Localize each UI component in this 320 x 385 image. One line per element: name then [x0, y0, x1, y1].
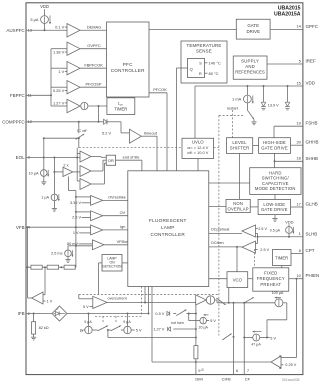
svg-text:IC off: IC off [77, 128, 87, 133]
wire threshold link [43, 137, 79, 157]
wire VDD rail [195, 85, 303, 87]
wire VCO to preheat [248, 278, 253, 280]
wire 0.25V comparator output [152, 361, 271, 363]
svg-text:restart: restart [227, 105, 239, 110]
svg-text:DIM: DIM [195, 376, 202, 381]
resistor DIM [194, 346, 198, 359]
flip-flop temp sense [188, 59, 205, 78]
wire OVPFC output [80, 43, 107, 49]
block FLUORESCENT LAMP CONTROLLER [128, 171, 209, 287]
wire Ign output [103, 225, 128, 230]
wire OV output [103, 211, 128, 216]
current source 0.5 uA [270, 224, 295, 233]
svg-text:AND: AND [245, 64, 255, 69]
pin 18 SHHB [275, 156, 319, 162]
svg-text:(1): (1) [201, 368, 204, 372]
svg-text:IFB: IFB [18, 311, 25, 316]
svg-text:PFCOSP: PFCOSP [86, 81, 102, 86]
control rail dashed vertical [218, 116, 220, 336]
current source 10 uA [29, 158, 50, 177]
svg-text:20: 20 [296, 140, 301, 145]
wire dim comp row [215, 300, 217, 303]
resistor divider R-A [28, 265, 43, 269]
pin 3 EOL [16, 155, 31, 160]
wire COMPPFC line [26, 121, 99, 123]
svg-text:IREF: IREF [306, 59, 317, 64]
wire lamp-on left [99, 263, 103, 295]
gate OR [106, 155, 115, 165]
switch 9 uA b [111, 326, 121, 331]
comparator 3.30 V [70, 196, 103, 206]
svg-text:R: R [199, 71, 202, 76]
svg-text:UVLO: UVLO [192, 140, 204, 145]
svg-text:GPFC: GPFC [306, 24, 319, 29]
zener diode 13.9 V right [285, 86, 290, 110]
wire lamp controller to non overlap [209, 206, 226, 208]
svg-text:VDD: VDD [40, 4, 49, 9]
control link to restart switch dashed [219, 115, 244, 117]
VDD label (5 uA source) [40, 4, 49, 9]
zener diode 13.9 V left [261, 86, 266, 110]
ground 2.5 ms [65, 257, 70, 263]
ground low-side drive [272, 215, 277, 222]
comparator EOL lower [80, 179, 91, 190]
current source 5 uA [30, 16, 51, 25]
wire EOL comparator control [77, 148, 80, 181]
wire DIM to border [195, 359, 197, 375]
label 13.9 V [268, 103, 279, 107]
svg-text:001aan208: 001aan208 [282, 378, 300, 382]
label 5 V right of 9uA [131, 329, 142, 333]
wire IFB line left [26, 313, 52, 315]
wire OCpreheat [209, 227, 242, 233]
wire PHIEN to 0.25V comparator [281, 279, 297, 358]
svg-text:GATE DRIVE: GATE DRIVE [261, 146, 288, 151]
wire OCIsen to VCO [236, 247, 238, 272]
wire DEMAG output [80, 24, 107, 30]
svg-text:PFC: PFC [123, 62, 133, 67]
pin 9 DIM [195, 368, 204, 382]
ground 9 uA left [81, 329, 87, 332]
wire IC off rail down [78, 137, 80, 148]
comparator 1 V buffer [32, 292, 53, 304]
current source 1 mA [232, 86, 254, 104]
switch control dashed [95, 316, 142, 323]
comparator DEMAG 0.1 V [55, 24, 80, 38]
svg-text:TIMER: TIMER [114, 106, 127, 111]
svg-text:0.25 V: 0.25 V [285, 363, 296, 367]
svg-text:VDD: VDD [285, 219, 294, 224]
svg-text:1 V: 1 V [47, 300, 53, 304]
svg-text:140 °C: 140 °C [209, 60, 221, 65]
block TIMER [273, 250, 292, 266]
svg-text:1.27 V: 1.27 V [153, 328, 164, 332]
svg-text:0.25 V: 0.25 V [53, 88, 65, 93]
svg-text:REFERENCES: REFERENCES [235, 69, 265, 74]
wire PFCOSP output [80, 81, 107, 87]
svg-text:OVrestrike: OVrestrike [108, 196, 126, 200]
svg-text:1 V: 1 V [73, 231, 79, 235]
wire AUXPFC line [26, 29, 67, 31]
wire VDD to current source [44, 9, 46, 15]
svg-text:COMPPFC: COMPPFC [2, 119, 25, 124]
pin 7 CF [245, 368, 251, 381]
block HARD SWITCHING CAPACITIVE MODE DETECTION [250, 168, 301, 195]
block LOW-SIDE GATE DRIVE [258, 199, 290, 214]
wire VFBlow output [104, 240, 130, 245]
wire SLHB sense rail [256, 234, 259, 244]
svg-text:2 x: 2 x [63, 162, 68, 167]
ground 1 uA [52, 201, 57, 212]
block TEMPERATURE SENSE [181, 41, 227, 83]
comparator 80 mV [67, 240, 104, 250]
svg-text:S: S [199, 60, 202, 65]
control into preheat dashed [254, 249, 256, 268]
wire CF rail [243, 303, 245, 375]
svg-text:SHIFTER: SHIFTER [230, 146, 250, 151]
wire buffer output [28, 297, 32, 299]
block GATE DRIVE [236, 19, 270, 39]
current source 9 uA right [121, 314, 131, 334]
svg-text:PFCOK: PFCOK [153, 87, 167, 92]
control rail dashed horizontal [79, 147, 219, 149]
svg-text:timeout: timeout [144, 130, 158, 135]
comparator timeout 5.2 V [102, 129, 141, 143]
diode end-of-life timeout [99, 119, 122, 124]
svg-text:9 µA: 9 µA [84, 320, 92, 324]
resistor 82 kOhm [32, 314, 49, 335]
svg-text:3.30 V: 3.30 V [70, 201, 81, 205]
svg-text:18: 18 [296, 156, 301, 161]
comparator 1.27 V with current source [51, 99, 88, 112]
wire end of life [116, 154, 142, 170]
svg-text:OVPFC: OVPFC [87, 43, 101, 48]
svg-text:GHHB: GHHB [306, 140, 319, 145]
svg-text:CIFB: CIFB [222, 376, 231, 381]
title UBA2015 [278, 5, 301, 11]
ground 82 kOhm [31, 334, 36, 340]
block ton TIMER [107, 98, 135, 115]
wire timeout output [141, 130, 157, 171]
wire dim row right [217, 302, 275, 304]
multiplier diamond with diode [52, 306, 67, 321]
svg-text:off: < 10.0 V: off: < 10.0 V [187, 150, 208, 155]
svg-text:1 µA: 1 µA [41, 196, 49, 200]
svg-text:80 °C: 80 °C [209, 71, 219, 76]
wire FBPFC rail [50, 49, 52, 106]
svg-text:overcurrent: overcurrent [108, 296, 128, 300]
wire lamp controller to VCO [209, 278, 227, 280]
pin 11 FBPFC [10, 93, 33, 98]
svg-text:5 V: 5 V [270, 336, 276, 340]
block LAMP ON DETECTION [102, 255, 122, 272]
svg-text:5.2 V: 5.2 V [102, 131, 111, 136]
svg-text:Ign: Ign [120, 225, 125, 229]
svg-text:10 µA: 10 µA [29, 171, 39, 175]
wire 1.27V row [173, 328, 197, 330]
pin 4 VFB [16, 225, 31, 230]
svg-text:47 µA: 47 µA [251, 343, 261, 347]
wire CIFB rail [233, 303, 235, 375]
comparator dim control [196, 295, 215, 305]
svg-text:1 V: 1 V [58, 69, 64, 74]
block NON OVERLAP [226, 199, 250, 212]
switch IC off [76, 122, 88, 140]
svg-text:FBPFCOK: FBPFCOK [84, 62, 103, 67]
block FIXED FREQUENCY PREHEAT [253, 268, 289, 291]
diode 1.27 V [153, 327, 170, 332]
wire DIM rail [195, 303, 197, 346]
svg-text:Q: Q [190, 67, 193, 72]
svg-text:1 mA: 1 mA [232, 96, 241, 101]
svg-text:EOL: EOL [16, 155, 26, 160]
svg-text:FBPFC: FBPFC [10, 93, 26, 98]
diode 0.5 V lamp sense [155, 311, 169, 316]
wire OVrestrike output [103, 196, 128, 201]
pin 13 AUXPFC [6, 28, 32, 33]
ground 10 uA [41, 176, 46, 184]
svg-text:VCO: VCO [233, 278, 243, 283]
svg-text:15: 15 [296, 80, 301, 85]
wire overcurrent row [107, 296, 197, 303]
comparator 2.5 V lamp [72, 211, 103, 221]
wire 1.27V comp to ton timer [88, 105, 107, 107]
wire VCO to switch row [228, 288, 230, 303]
svg-text:UBA2015A: UBA2015A [274, 12, 301, 18]
comparator OCpreheat 2.5 V [242, 225, 267, 237]
svg-text:LEVEL: LEVEL [232, 140, 247, 145]
comparator PFCOSP 0.25 V [51, 81, 80, 94]
block UVLO [182, 138, 214, 158]
wire OCIsen [209, 241, 242, 248]
wire divider node A [42, 266, 47, 293]
svg-text:PHIEN: PHIEN [306, 273, 320, 278]
pin 14 GPFC [270, 24, 319, 30]
wire lamp ctrl output a dashed [141, 287, 143, 317]
block HIGH-SIDE GATE DRIVE [259, 138, 291, 154]
svg-text:0.1 V: 0.1 V [55, 24, 64, 29]
svg-text:OCIsen: OCIsen [211, 241, 224, 245]
wire FBPFC line [26, 94, 51, 96]
svg-text:HIGH-SIDE: HIGH-SIDE [263, 140, 286, 145]
svg-text:FLUORESCENT: FLUORESCENT [149, 218, 187, 223]
lamp controller control bus dashed [79, 293, 219, 295]
svg-text:AUXPFC: AUXPFC [6, 28, 25, 33]
pin 5 IREF [267, 58, 316, 64]
comparator 1 V lamp [73, 225, 103, 235]
switch preheat select [216, 298, 225, 305]
label VDD at SLHB source [285, 219, 294, 224]
comparator EOL upper [80, 151, 91, 162]
svg-text:0.5 V: 0.5 V [155, 312, 164, 316]
svg-text:CPT: CPT [306, 248, 315, 253]
switch CIFB [222, 334, 234, 340]
svg-text:not Isen: not Isen [171, 321, 184, 325]
label 140 C [205, 60, 221, 65]
svg-text:1.27 V: 1.27 V [53, 100, 65, 105]
pin 1 SLHB [258, 231, 318, 237]
svg-text:GLHB: GLHB [306, 202, 318, 207]
svg-text:MODE DETECTION: MODE DETECTION [255, 186, 296, 191]
wire lamp controller to hard switching [209, 182, 250, 184]
svg-text:5 V: 5 V [136, 329, 142, 333]
current source 1 uA [41, 158, 60, 201]
svg-text:SUPPLY: SUPPLY [241, 59, 259, 64]
wire divider right rail [74, 266, 77, 268]
wire FBPFCOK output [80, 62, 107, 68]
resistor divider R-B [47, 265, 59, 269]
control link restart to UVLO dashed [232, 110, 234, 138]
svg-text:1.38 V: 1.38 V [53, 49, 65, 54]
wire node to COMPPFC [98, 106, 100, 123]
comparator OVPFC 1.38 V [51, 42, 80, 55]
block PFC CONTROLLER [107, 22, 150, 97]
wire 0.5uA to SLHB [288, 233, 290, 237]
wire source to AUXPFC node [44, 23, 46, 31]
wire lamp ctrl output c [148, 287, 150, 315]
resistor divider R-C [64, 265, 75, 269]
pin 20 GHHB [291, 140, 319, 146]
svg-text:14: 14 [296, 24, 301, 29]
svg-text:10: 10 [296, 273, 301, 278]
svg-text:82 kΩ: 82 kΩ [39, 326, 49, 330]
wire lamp-on right [122, 262, 128, 264]
svg-text:5 V: 5 V [210, 319, 216, 323]
wire hard switching to low side [274, 194, 276, 199]
svg-text:VFB: VFB [16, 225, 25, 230]
wire lamp ctrl output d [151, 287, 153, 363]
comparator OCIsen 2.5 V [242, 241, 270, 253]
wire level shifter to high-side [253, 145, 259, 147]
svg-text:OR: OR [108, 158, 114, 163]
wire PFC to GATE DRIVE [149, 29, 236, 31]
wire diode to comparator [121, 122, 129, 133]
wire temp Q output [177, 68, 188, 171]
block LEVEL SHIFTER [227, 138, 253, 154]
wire EOL comp2 to OR [91, 160, 106, 171]
label 80 C [205, 71, 219, 76]
wire 9uA switch node [107, 329, 197, 339]
comparator EOL middle [80, 166, 91, 177]
svg-text:17: 17 [296, 201, 301, 206]
wire high-side source [274, 153, 276, 167]
remark 001aan208 [282, 378, 300, 382]
amplifier 2x [53, 162, 80, 176]
svg-text:100 µA: 100 µA [272, 291, 284, 295]
svg-text:OVERLAP: OVERLAP [228, 206, 249, 211]
title UBA2015A [274, 12, 301, 18]
svg-text:CONTROLLER: CONTROLLER [151, 232, 186, 237]
current source 2.5 ms [51, 246, 76, 257]
svg-text:FREQUENCY: FREQUENCY [257, 276, 285, 281]
svg-text:LOW-SIDE: LOW-SIDE [263, 202, 285, 207]
svg-text:OCpreheat: OCpreheat [211, 227, 231, 231]
wire 0.5V row to DIM rail [186, 313, 197, 315]
svg-text:CF: CF [245, 376, 251, 381]
switch not Isen [171, 310, 186, 326]
svg-text:CONTROLLER: CONTROLLER [111, 68, 145, 73]
pin 10 PHIEN [289, 273, 320, 280]
svg-text:NON: NON [233, 201, 243, 206]
wire PFCOK output [149, 87, 167, 171]
current source 20 uA 5 V [189, 314, 217, 330]
switch frequency select [244, 297, 254, 303]
current source 9 uA left [84, 314, 92, 334]
pin 17 GLHB [291, 201, 318, 207]
wire VFB line [26, 226, 91, 228]
wire lamp ctrl output b [144, 287, 146, 303]
svg-text:5 µA: 5 µA [30, 17, 38, 22]
svg-text:SENSE: SENSE [196, 48, 212, 53]
svg-text:OV: OV [120, 211, 126, 215]
wire VDD to UVLO [194, 86, 196, 138]
wire IFB line right [67, 313, 149, 315]
block VCO [227, 272, 248, 288]
pin 8 CPT [291, 248, 315, 254]
pin 15 VDD [296, 80, 315, 85]
wire VFB threshold rail [69, 177, 77, 268]
wire EOL line [26, 157, 80, 159]
comparator 0.25 V [271, 355, 297, 369]
svg-text:UBA2015: UBA2015 [278, 5, 301, 11]
pin 19 FSHB [274, 121, 318, 127]
switch 9 uA a [92, 326, 108, 331]
svg-text:VDD: VDD [306, 81, 316, 86]
svg-text:PREHEAT: PREHEAT [260, 282, 281, 287]
svg-text:TIMER: TIMER [275, 255, 288, 260]
wire divider left rail [27, 227, 29, 298]
svg-text:SLHB: SLHB [306, 231, 318, 236]
svg-text:end of life: end of life [123, 154, 140, 159]
svg-text:DEMAG: DEMAG [87, 24, 101, 29]
comparator FBPFCOK 1 V [51, 62, 80, 75]
wire EOL comp1 to OR [91, 156, 106, 159]
comparator overcurrent 5 V [79, 294, 107, 309]
svg-text:DRIVE: DRIVE [246, 29, 259, 34]
pin 6 CIFB [222, 368, 239, 381]
svg-text:FIXED: FIXED [264, 271, 277, 276]
svg-text:5 V: 5 V [83, 305, 89, 309]
svg-text:2.5 V: 2.5 V [258, 227, 267, 231]
svg-text:2.5 V: 2.5 V [260, 248, 269, 252]
svg-text:GATE DRIVE: GATE DRIVE [261, 207, 288, 212]
svg-text:DETECTION: DETECTION [102, 265, 122, 269]
wire divider node B [59, 266, 65, 268]
wire EOL comp3 to OR [91, 163, 106, 184]
current source 47 uA 5 V [244, 331, 276, 347]
svg-text:19: 19 [296, 121, 301, 126]
current source 100 uA [272, 291, 284, 307]
svg-text:SHHB: SHHB [306, 156, 319, 161]
wire non overlap to level shifter [239, 153, 241, 199]
wire FSHB to high-side [273, 126, 275, 138]
svg-text:LAMP: LAMP [161, 225, 175, 230]
svg-text:2.5 V: 2.5 V [72, 216, 81, 220]
svg-text:GATE: GATE [247, 23, 259, 28]
svg-text:2.5 ms: 2.5 ms [51, 252, 62, 256]
svg-text:20 µA: 20 µA [198, 325, 208, 329]
pin 2 IFB [18, 311, 31, 316]
wire 100uA output routing [266, 303, 287, 339]
svg-text:TEMPERATURE: TEMPERATURE [186, 43, 221, 48]
pin 12 COMPPFC [2, 119, 33, 124]
svg-text:9 µA: 9 µA [123, 320, 131, 324]
ground restart [251, 119, 256, 124]
switch restart [227, 103, 254, 120]
svg-text:0.5 µA: 0.5 µA [270, 229, 281, 233]
wire non overlap to low-side [250, 206, 258, 208]
svg-text:13.9 V: 13.9 V [268, 103, 279, 107]
